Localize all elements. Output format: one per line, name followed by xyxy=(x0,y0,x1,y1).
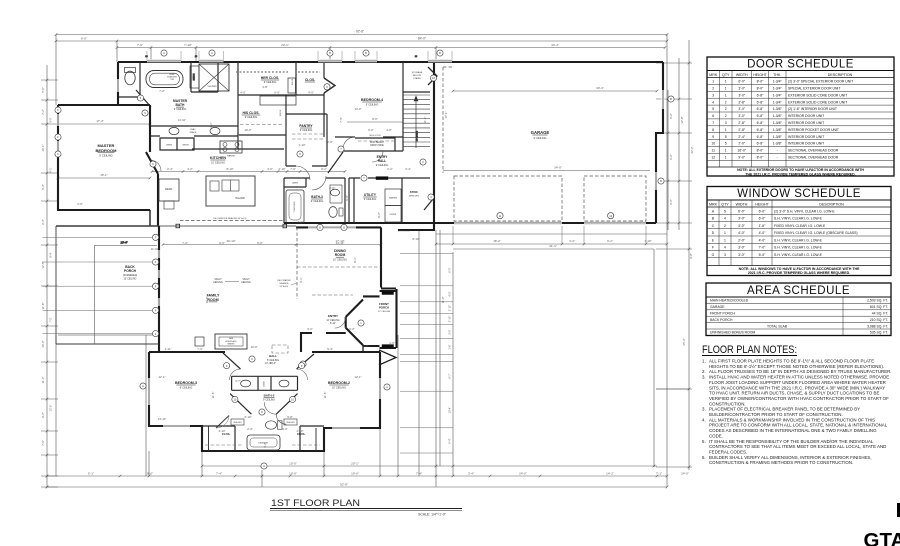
svg-text:CLOS.: CLOS. xyxy=(305,78,315,82)
svg-text:2.: 2. xyxy=(702,369,706,374)
svg-text:2'-8": 2'-8" xyxy=(738,128,746,132)
svg-text:HEIGHT: HEIGHT xyxy=(753,73,767,77)
svg-text:2: 2 xyxy=(724,224,726,228)
svg-text:1: 1 xyxy=(724,231,726,235)
svg-text:13'-0": 13'-0" xyxy=(354,107,361,111)
svg-text:FIREPLACE: FIREPLACE xyxy=(225,340,237,343)
svg-text:6'-8": 6'-8" xyxy=(757,100,765,104)
svg-text:9'-2": 9'-2" xyxy=(41,412,45,418)
svg-text:1-3/4": 1-3/4" xyxy=(773,80,783,84)
svg-text:3'-0": 3'-0" xyxy=(738,224,746,228)
svg-text:3'-0": 3'-0" xyxy=(738,246,746,250)
svg-text:4'-0": 4'-0" xyxy=(308,91,314,95)
svg-text:44'-4": 44'-4" xyxy=(551,43,559,47)
svg-text:5: 5 xyxy=(725,135,727,139)
svg-text:7'-10": 7'-10" xyxy=(184,43,192,47)
svg-text:6'-0": 6'-0" xyxy=(759,217,767,221)
svg-text:CEILING: CEILING xyxy=(213,281,223,284)
svg-text:2,503 SQ. FT.: 2,503 SQ. FT. xyxy=(867,299,888,303)
svg-text:2'-6": 2'-6" xyxy=(329,186,335,190)
svg-text:9' CEILING: 9' CEILING xyxy=(364,198,377,201)
svg-text:7'-10": 7'-10" xyxy=(644,239,651,243)
svg-text:1-3/8": 1-3/8" xyxy=(773,107,783,111)
svg-text:6'-8": 6'-8" xyxy=(757,128,765,132)
svg-text:9'-0": 9'-0" xyxy=(738,156,746,160)
svg-text:6'-8": 6'-8" xyxy=(757,121,765,125)
svg-text:1: 1 xyxy=(725,80,727,84)
svg-text:26'-10": 26'-10" xyxy=(227,239,236,243)
svg-text:1'-10": 1'-10" xyxy=(298,143,305,147)
svg-text:INSTALL HVAC AND WATER HEATER: INSTALL HVAC AND WATER HEATER IN ATTIC U… xyxy=(709,375,889,380)
svg-text:BENCH: BENCH xyxy=(194,73,196,80)
svg-text:DROP ZONE: DROP ZONE xyxy=(370,145,384,147)
svg-text:14'-2": 14'-2" xyxy=(606,472,614,476)
svg-text:A: A xyxy=(211,51,213,55)
svg-text:SHELVES: SHELVES xyxy=(233,422,242,424)
svg-text:96" A.F.F.: 96" A.F.F. xyxy=(280,285,289,288)
svg-text:5: 5 xyxy=(724,209,726,213)
svg-text:B: B xyxy=(670,97,672,101)
svg-text:6'-2": 6'-2" xyxy=(669,199,673,205)
svg-text:CONTRACTORS TO SEE THAT ALL IT: CONTRACTORS TO SEE THAT ALL ITEMS MEET O… xyxy=(709,444,886,449)
svg-text:10'-0": 10'-0" xyxy=(244,128,251,132)
svg-text:INTERIOR POCKET DOOR UNIT: INTERIOR POCKET DOOR UNIT xyxy=(788,128,839,132)
svg-text:UNFINISHED BONUS ROOM: UNFINISHED BONUS ROOM xyxy=(710,331,755,335)
svg-text:KITCHEN: KITCHEN xyxy=(210,156,226,160)
svg-text:7'-2": 7'-2" xyxy=(41,109,45,115)
dimension framework xyxy=(41,30,694,489)
svg-text:BUILDER/CONTRACTOR PRIOR TO ST: BUILDER/CONTRACTOR PRIOR TO START OF CON… xyxy=(709,412,843,417)
svg-text:5: 5 xyxy=(725,142,727,146)
svg-text:9' CEILING: 9' CEILING xyxy=(311,200,324,203)
svg-text:SHELVES: SHELVES xyxy=(409,196,419,198)
svg-text:EXTERIOR SOLID CORE DOOR UNIT: EXTERIOR SOLID CORE DOOR UNIT xyxy=(788,93,847,97)
svg-text:6'-4": 6'-4" xyxy=(41,219,45,225)
svg-text:9' CEILING: 9' CEILING xyxy=(264,81,277,84)
svg-text:CEILING: CEILING xyxy=(241,281,251,284)
svg-text:ALL FLOOR TRUSSES TO BE 18" IN: ALL FLOOR TRUSSES TO BE 18" IN DEPTH AS … xyxy=(709,369,892,374)
svg-text:ROOM: ROOM xyxy=(335,253,346,257)
svg-text:7'-0": 7'-0" xyxy=(759,246,767,250)
svg-text:ROOM: ROOM xyxy=(207,298,218,302)
svg-text:1: 1 xyxy=(725,149,727,153)
svg-text:WRDB: WRDB xyxy=(182,145,189,147)
svg-text:FRONT PORCH: FRONT PORCH xyxy=(710,312,735,316)
svg-text:DOOR SCHEDULE: DOOR SCHEDULE xyxy=(747,59,854,71)
svg-text:SHLF & ROD: SHLF & ROD xyxy=(369,135,381,137)
svg-text:EXTERIOR SOLID CORE DOOR UNIT: EXTERIOR SOLID CORE DOOR UNIT xyxy=(788,100,847,104)
svg-text:CONSTRUCTION.: CONSTRUCTION. xyxy=(709,401,746,406)
svg-text:DECORATIVE: DECORATIVE xyxy=(277,279,291,282)
svg-text:AREA SCHEDULE: AREA SCHEDULE xyxy=(747,285,850,297)
svg-text:9'-2": 9'-2" xyxy=(607,239,613,243)
svg-text:3,088 SQ. FT.: 3,088 SQ. FT. xyxy=(867,324,888,328)
svg-text:9'-0": 9'-0" xyxy=(219,241,225,245)
svg-text:16'-0": 16'-0" xyxy=(737,149,746,153)
svg-text:2: 2 xyxy=(725,107,727,111)
svg-text:1.: 1. xyxy=(702,359,706,364)
door schedule xyxy=(707,57,894,176)
svg-text:9' CEILING: 9' CEILING xyxy=(174,108,187,111)
room labels xyxy=(96,71,550,445)
svg-text:-: - xyxy=(777,156,778,160)
svg-text:17'-4": 17'-4" xyxy=(96,119,103,123)
svg-text:3'-0": 3'-0" xyxy=(448,329,452,334)
svg-text:2'-1": 2'-1" xyxy=(209,122,213,127)
svg-text:210 SQ. FT.: 210 SQ. FT. xyxy=(870,318,888,322)
svg-text:3.: 3. xyxy=(702,375,706,380)
svg-text:3'-0": 3'-0" xyxy=(77,202,83,206)
svg-text:7'-0": 7'-0" xyxy=(159,89,165,93)
svg-text:12: 12 xyxy=(711,156,715,160)
svg-text:13'-10": 13'-10" xyxy=(178,118,186,122)
svg-text:4'-0": 4'-0" xyxy=(738,231,746,235)
svg-text:7'-0": 7'-0" xyxy=(41,440,45,446)
svg-text:5'-0": 5'-0" xyxy=(345,195,349,200)
svg-text:1ST FLOOR PLAN: 1ST FLOOR PLAN xyxy=(271,498,360,509)
svg-text:FAMILY: FAMILY xyxy=(207,294,220,298)
svg-text:STORAGE: STORAGE xyxy=(412,71,423,74)
svg-text:16: 16 xyxy=(145,56,148,58)
svg-text:D: D xyxy=(712,231,715,235)
svg-text:4'-0": 4'-0" xyxy=(386,128,392,132)
svg-text:S.H. VINYL CLEAR I.G. LOW-E: S.H. VINYL CLEAR I.G. LOW-E xyxy=(774,238,823,242)
svg-text:92'-8": 92'-8" xyxy=(340,483,348,487)
svg-text:7'-0": 7'-0" xyxy=(137,43,143,47)
svg-text:17'-1": 17'-1" xyxy=(444,111,448,118)
svg-text:10'-4": 10'-4" xyxy=(120,240,127,244)
svg-text:GARAGE: GARAGE xyxy=(710,305,725,309)
svg-text:5.: 5. xyxy=(702,439,706,444)
svg-text:G: G xyxy=(712,253,715,257)
svg-text:6'-0": 6'-0" xyxy=(349,327,355,331)
svg-text:4: 4 xyxy=(712,100,714,104)
svg-text:HEIGHTS TO BE 8'-1½" EXCEPT TH: HEIGHTS TO BE 8'-1½" EXCEPT THOSE NOTED … xyxy=(709,364,884,369)
svg-text:8'-0": 8'-0" xyxy=(372,117,378,121)
svg-text:4: 4 xyxy=(724,246,726,250)
svg-text:SPECIAL EXTERIOR DOOR UNIT: SPECIAL EXTERIOR DOOR UNIT xyxy=(788,87,840,91)
svg-text:A: A xyxy=(343,226,345,230)
svg-text:23'-1": 23'-1" xyxy=(281,43,289,47)
dashed lines xyxy=(180,67,646,445)
svg-text:10'-0": 10'-0" xyxy=(289,472,297,476)
svg-text:8'-0": 8'-0" xyxy=(757,87,765,91)
svg-text:44 SQ. FT.: 44 SQ. FT. xyxy=(872,312,888,316)
svg-text:2'-8": 2'-8" xyxy=(738,121,746,125)
svg-text:BATH-2: BATH-2 xyxy=(264,394,275,398)
svg-text:2: 2 xyxy=(725,100,727,104)
svg-text:6'-11": 6'-11" xyxy=(330,322,336,325)
svg-text:3'-0": 3'-0" xyxy=(738,217,746,221)
door/window marks xyxy=(55,50,674,469)
svg-text:DRYER: DRYER xyxy=(390,214,397,216)
svg-text:8'-2": 8'-2" xyxy=(41,184,45,190)
svg-text:SECTIONAL OVERHEAD DOOR: SECTIONAL OVERHEAD DOOR xyxy=(788,156,839,160)
svg-text:12' CEILING: 12' CEILING xyxy=(378,311,391,313)
plan title xyxy=(270,498,462,517)
svg-text:6'-4": 6'-4" xyxy=(448,438,452,443)
svg-text:ISLAND: ISLAND xyxy=(235,196,244,200)
svg-text:6'-8": 6'-8" xyxy=(757,114,765,118)
svg-text:2'-10": 2'-10" xyxy=(448,305,452,312)
svg-text:INTERIOR DOOR UNIT: INTERIOR DOOR UNIT xyxy=(788,142,824,146)
svg-text:24'-0": 24'-0" xyxy=(681,472,689,476)
svg-text:2: 2 xyxy=(712,87,714,91)
svg-text:7'-6": 7'-6" xyxy=(290,167,296,171)
svg-text:LINEN: LINEN xyxy=(292,183,299,185)
svg-text:INSERT: INSERT xyxy=(227,344,235,346)
svg-text:MUD BENCH: MUD BENCH xyxy=(370,142,384,144)
svg-text:6'-0": 6'-0" xyxy=(738,80,746,84)
svg-text:ENTRY: ENTRY xyxy=(328,314,338,318)
svg-text:HALL: HALL xyxy=(269,354,277,358)
svg-text:3'-0": 3'-0" xyxy=(282,427,288,431)
svg-text:9' CEILING: 9' CEILING xyxy=(180,386,193,389)
svg-text:34'-0": 34'-0" xyxy=(554,166,562,170)
svg-text:1: 1 xyxy=(724,238,726,242)
svg-text:9'-0": 9'-0" xyxy=(49,117,53,122)
svg-text:1-3/8": 1-3/8" xyxy=(773,121,783,125)
svg-text:FLOOR JOIST LOADING SUPPORT UN: FLOOR JOIST LOADING SUPPORT UNDER FLOORE… xyxy=(709,380,886,385)
svg-text:4'-2": 4'-2" xyxy=(187,167,193,171)
svg-text:1'-6": 1'-6" xyxy=(448,344,452,349)
svg-text:10'-0": 10'-0" xyxy=(351,472,359,476)
svg-text:4'-0": 4'-0" xyxy=(759,238,767,242)
svg-text:1-3/8": 1-3/8" xyxy=(773,135,783,139)
svg-text:12'-0": 12'-0" xyxy=(49,405,53,412)
svg-text:18'-2": 18'-2" xyxy=(493,239,500,243)
svg-text:2021 I.R.C. PROVIDE TEMPERED: 2021 I.R.C. PROVIDE TEMPERED GLASS WHERE… xyxy=(748,271,850,275)
svg-text:FIXED VINYL CLEAR I.G. LOW-E: FIXED VINYL CLEAR I.G. LOW-E xyxy=(774,224,826,228)
svg-text:INTERIOR DOOR UNIT: INTERIOR DOOR UNIT xyxy=(788,114,824,118)
svg-text:9'-1": 9'-1" xyxy=(353,257,357,262)
svg-text:QTY: QTY xyxy=(721,202,729,206)
svg-text:9: 9 xyxy=(712,135,714,139)
floor plan notes xyxy=(702,344,892,465)
svg-text:6'-0": 6'-0" xyxy=(81,37,87,41)
svg-text:THE 2021 I.R.C. PROVIDE TEMP: THE 2021 I.R.C. PROVIDE TEMPERED GLASS W… xyxy=(745,172,855,176)
svg-text:6'-1": 6'-1" xyxy=(299,277,303,282)
svg-text:LINEN: LINEN xyxy=(264,380,266,386)
svg-text:1: 1 xyxy=(725,87,727,91)
svg-text:3: 3 xyxy=(725,121,727,125)
svg-text:6'-2": 6'-2" xyxy=(377,212,381,217)
svg-text:1-3/4": 1-3/4" xyxy=(773,93,783,97)
svg-text:4'-2": 4'-2" xyxy=(448,291,452,296)
svg-text:4'-0": 4'-0" xyxy=(759,231,767,235)
svg-text:601 SQ. FT.: 601 SQ. FT. xyxy=(870,305,888,309)
svg-text:8: 8 xyxy=(712,128,714,132)
svg-text:GARAGE: GARAGE xyxy=(531,130,550,135)
svg-text:HIS CLOS.: HIS CLOS. xyxy=(243,111,260,115)
svg-text:3'-4": 3'-4" xyxy=(468,472,474,476)
svg-text:11: 11 xyxy=(711,149,715,153)
svg-text:5'-0": 5'-0" xyxy=(257,241,263,245)
interior walls xyxy=(119,62,433,451)
svg-text:6'-0": 6'-0" xyxy=(738,209,746,213)
svg-text:6'-8": 6'-8" xyxy=(757,93,765,97)
svg-text:UTILITY: UTILITY xyxy=(364,193,377,197)
svg-text:1-3/4": 1-3/4" xyxy=(773,87,783,91)
svg-text:8'-10": 8'-10" xyxy=(412,237,419,241)
svg-text:6'-8": 6'-8" xyxy=(757,142,765,146)
svg-text:4'-0": 4'-0" xyxy=(240,91,246,95)
svg-text:41'-1": 41'-1" xyxy=(549,244,557,248)
svg-text:3'-0": 3'-0" xyxy=(738,87,746,91)
svg-text:9' CEILING: 9' CEILING xyxy=(300,129,313,132)
svg-text:7'-2": 7'-2" xyxy=(49,317,53,322)
svg-text:INTERIOR DOOR UNIT: INTERIOR DOOR UNIT xyxy=(788,135,824,139)
svg-text:6.: 6. xyxy=(702,455,706,460)
svg-text:SHLVS: SHLVS xyxy=(280,109,282,116)
svg-text:ALL MATERIALS & WORKMANSHIP IN: ALL MATERIALS & WORKMANSHIP INVOLVED IN … xyxy=(709,417,875,422)
svg-text:HER CLOS.: HER CLOS. xyxy=(261,76,280,80)
svg-text:1-3/4": 1-3/4" xyxy=(773,100,783,104)
svg-text:4.: 4. xyxy=(702,417,706,422)
svg-text:C: C xyxy=(712,224,715,228)
svg-text:INTERIOR DOOR UNIT: INTERIOR DOOR UNIT xyxy=(788,121,824,125)
svg-text:10' CEILING: 10' CEILING xyxy=(211,161,225,164)
svg-text:4: 4 xyxy=(724,217,726,221)
svg-text:5'-8": 5'-8" xyxy=(287,415,293,419)
svg-text:BATH: BATH xyxy=(176,103,186,107)
svg-text:1-3/8": 1-3/8" xyxy=(773,114,783,118)
svg-text:11'-0": 11'-0" xyxy=(41,377,45,384)
svg-text:16 RISERS: 16 RISERS xyxy=(417,130,419,141)
svg-text:THK.: THK. xyxy=(773,73,781,77)
svg-text:3'-4": 3'-4" xyxy=(569,239,575,243)
svg-text:11'-10": 11'-10" xyxy=(151,247,159,251)
svg-text:11'-8": 11'-8" xyxy=(41,303,45,310)
svg-text:11'-0": 11'-0" xyxy=(441,297,445,304)
svg-text:5'-0": 5'-0" xyxy=(759,253,767,257)
svg-text:9' CEILING: 9' CEILING xyxy=(263,398,275,401)
svg-text:S.H. VINYL CLEAR I.G. LOW-E: S.H. VINYL CLEAR I.G. LOW-E xyxy=(774,217,823,221)
svg-text:8'-8": 8'-8" xyxy=(689,253,693,259)
svg-text:2'-8": 2'-8" xyxy=(738,100,746,104)
svg-text:8'-0": 8'-0" xyxy=(757,149,765,153)
svg-text:HVAC: HVAC xyxy=(190,128,196,131)
svg-text:2'-0": 2'-0" xyxy=(327,140,333,144)
svg-text:BACK PORCH: BACK PORCH xyxy=(710,318,733,322)
svg-text:3'-2": 3'-2" xyxy=(307,327,313,331)
svg-text:STOR.: STOR. xyxy=(410,190,419,194)
interior dim texts xyxy=(77,85,427,448)
svg-text:4'-6": 4'-6" xyxy=(267,167,273,171)
svg-text:BEDROOM-4: BEDROOM-4 xyxy=(361,98,383,102)
svg-text:DECORATIVE HEADER 96" A.F.F.: DECORATIVE HEADER 96" A.F.F. xyxy=(213,217,247,220)
svg-text:9' CEILING: 9' CEILING xyxy=(533,136,546,140)
svg-text:84'-0": 84'-0" xyxy=(418,37,426,41)
svg-text:B: B xyxy=(712,217,715,221)
svg-text:16: 16 xyxy=(415,56,418,58)
svg-text:16: 16 xyxy=(195,56,198,58)
svg-text:11'-5": 11'-5" xyxy=(323,392,327,399)
svg-text:BEDROOM: BEDROOM xyxy=(96,148,118,153)
svg-text:S.H. VINYL CLEAR I.G. LOW-E: S.H. VINYL CLEAR I.G. LOW-E xyxy=(774,246,823,250)
svg-text:8'-0": 8'-0" xyxy=(757,156,765,160)
svg-text:12'-8": 12'-8" xyxy=(680,116,684,123)
area schedule xyxy=(706,283,891,336)
svg-text:6'-7": 6'-7" xyxy=(448,373,452,378)
svg-text:13'-10": 13'-10" xyxy=(336,241,345,245)
svg-text:10'-0": 10'-0" xyxy=(250,345,257,349)
svg-text:20'-1": 20'-1" xyxy=(351,462,359,466)
svg-text:(2) 3'-0" SPECIAL EXTERIOR DO: (2) 3'-0" SPECIAL EXTERIOR DOOR UNIT xyxy=(788,80,853,84)
svg-text:MRK: MRK xyxy=(709,202,718,206)
svg-text:REFR.: REFR. xyxy=(165,187,173,191)
svg-text:24'-0": 24'-0" xyxy=(519,472,527,476)
svg-text:12'-5": 12'-5" xyxy=(41,261,45,268)
svg-text:2'-4": 2'-4" xyxy=(167,167,173,171)
svg-text:CLOS.: CLOS. xyxy=(297,432,306,436)
svg-text:2'-4": 2'-4" xyxy=(738,135,746,139)
svg-text:BEDROOM-3: BEDROOM-3 xyxy=(175,381,197,385)
svg-text:BELOW: BELOW xyxy=(413,75,422,77)
svg-text:6'-8": 6'-8" xyxy=(757,135,765,139)
svg-text:2'-0": 2'-0" xyxy=(738,142,746,146)
svg-text:BEDROOM-2: BEDROOM-2 xyxy=(328,381,350,385)
svg-text:A: A xyxy=(319,226,321,230)
svg-text:ALL FIRST FLOOR PLATE HEIGHTS: ALL FIRST FLOOR PLATE HEIGHTS TO BE 9'-1… xyxy=(709,359,874,364)
svg-text:12'-1": 12'-1" xyxy=(354,375,361,379)
svg-text:11'-5": 11'-5" xyxy=(211,392,215,399)
svg-text:CLOS.: CLOS. xyxy=(222,432,231,436)
svg-text:6'-0": 6'-0" xyxy=(448,267,452,272)
svg-text:GAS: GAS xyxy=(229,337,234,340)
svg-text:SHELVES: SHELVES xyxy=(286,422,295,424)
svg-text:WINDOW SCHEDULE: WINDOW SCHEDULE xyxy=(737,188,861,200)
svg-text:A: A xyxy=(712,209,715,213)
svg-text:7'-1": 7'-1" xyxy=(656,472,662,476)
svg-text:TUB: TUB xyxy=(170,79,175,81)
svg-text:WASHER: WASHER xyxy=(389,197,398,200)
svg-text:FIXED VINYL CLEAR I.G. LOW-E: FIXED VINYL CLEAR I.G. LOW-E (OBSCURE GL… xyxy=(774,231,857,235)
svg-text:4'-8": 4'-8" xyxy=(262,85,268,89)
svg-text:CODE.: CODE. xyxy=(709,433,723,438)
svg-text:WIDTH: WIDTH xyxy=(736,73,748,77)
svg-text:A: A xyxy=(142,384,144,388)
svg-text:SCALE: 1/4"=1'-0": SCALE: 1/4"=1'-0" xyxy=(418,513,446,517)
svg-text:10' CEILING: 10' CEILING xyxy=(333,258,347,261)
svg-text:SPACE: SPACE xyxy=(190,131,198,134)
svg-text:(2) 3'-0" S.H. VINYL CLEAR I.: (2) 3'-0" S.H. VINYL CLEAR I.G. LOW-E xyxy=(774,209,835,213)
svg-text:PLACEMENT OF ELECTRICAL BREAKE: PLACEMENT OF ELECTRICAL BREAKER PANEL TO… xyxy=(709,407,860,412)
svg-text:92'-8": 92'-8" xyxy=(356,30,364,34)
svg-text:6'-8": 6'-8" xyxy=(757,107,765,111)
svg-text:10'-4": 10'-4" xyxy=(448,407,452,414)
svg-text:6'-0": 6'-0" xyxy=(368,128,374,132)
svg-text:B: B xyxy=(439,51,441,55)
svg-text:A: A xyxy=(386,385,388,389)
svg-text:535 SQ. FT.: 535 SQ. FT. xyxy=(870,331,888,335)
window schedule xyxy=(707,187,891,276)
svg-text:FLOOR PLAN NOTES:: FLOOR PLAN NOTES: xyxy=(702,344,797,356)
svg-text:9' CEILING: 9' CEILING xyxy=(376,164,389,167)
svg-text:1'-6": 1'-6" xyxy=(389,341,395,345)
svg-text:3.: 3. xyxy=(702,407,706,412)
svg-text:PROJECT ARE TO CONFORM WITH AL: PROJECT ARE TO CONFORM WITH ALL LOCAL, S… xyxy=(709,423,888,428)
svg-text:3: 3 xyxy=(724,253,726,257)
svg-text:SECTIONAL OVERHEAD DOOR: SECTIONAL OVERHEAD DOOR xyxy=(788,149,839,153)
svg-text:MAIN HEATED/COOLED: MAIN HEATED/COOLED xyxy=(710,299,749,303)
svg-text:6'-0": 6'-0" xyxy=(274,91,280,95)
svg-text:SHLVS: SHLVS xyxy=(292,78,294,85)
exterior walls xyxy=(58,62,663,451)
svg-text:3'-0": 3'-0" xyxy=(738,114,746,118)
svg-text:7: 7 xyxy=(712,121,714,125)
svg-text:9' CEILING: 9' CEILING xyxy=(99,154,113,158)
